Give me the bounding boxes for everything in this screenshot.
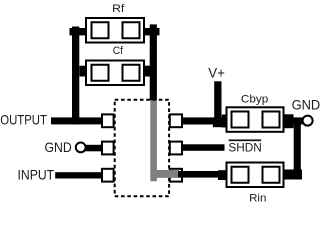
Cf right terminal stub [145, 66, 151, 77]
V+ bar bottom foot [213, 123, 223, 128]
svg-text:V+: V+ [208, 65, 225, 81]
capacitor Cf body [86, 61, 144, 86]
wire: Cbyp to GND circle [285, 117, 303, 124]
wire: OUTPUT to IC pin 1 [51, 117, 101, 124]
svg-text:Rf: Rf [112, 3, 125, 15]
wire: IC pin 4 to Rin [178, 171, 226, 178]
svg-text:Rin: Rin [249, 192, 266, 204]
Rin left terminal stub [218, 170, 226, 180]
Rf right terminal stub [145, 28, 160, 35]
terminal: GND open circle (left) [76, 143, 86, 153]
svg-text:OUTPUT: OUTPUT [0, 112, 47, 128]
node SHDN label (with overbar) [229, 139, 262, 141]
IC U1 dashed courtyard outline [115, 100, 169, 196]
wire: right vertical bus from Cbyp down to Rin [294, 121, 301, 180]
wire: right vertical bus from Rf/Cf right terminals down into IC top [150, 24, 157, 100]
wire: IC pin 5 to SHDN [183, 144, 225, 151]
svg-text:Cf: Cf [113, 45, 124, 57]
wire: INPUT to IC pin 3 [55, 172, 101, 178]
wire: GND to IC pin 2 [85, 145, 101, 152]
IC pad pin 6 (right top) [170, 114, 182, 127]
wire: IC pin 6 to Cbyp [183, 117, 226, 124]
IC pad pin 5 (right middle) [170, 142, 182, 155]
svg-text:Cbyp: Cbyp [241, 93, 268, 105]
wire: gray hidden trace horizontal through pin 4 [151, 170, 179, 178]
wire: left vertical bus from Rf/Cf left terminals down to OUTPUT node [72, 27, 79, 125]
Rf left terminal stub [70, 28, 86, 35]
IC pad pin 2 (left middle) [102, 142, 114, 155]
Rin right terminal stub [285, 170, 303, 180]
Cbyp left terminal stub [222, 115, 226, 128]
terminal: GND open circle (right) [303, 116, 313, 126]
svg-text:SHDN: SHDN [228, 140, 261, 154]
IC pad pin 3 (left bottom) [102, 169, 114, 182]
Cf left terminal stub [80, 66, 86, 77]
IC pad pin 4 (right bottom) [170, 169, 182, 182]
IC pad pin 1 (left top) [102, 114, 114, 127]
Cbyp right terminal stub [285, 114, 294, 128]
wire: V+ supply vertical bar [214, 81, 221, 127]
resistor Rin body [227, 163, 284, 188]
svg-text:INPUT: INPUT [18, 167, 55, 183]
resistor Rf body [86, 18, 144, 43]
svg-text:GND: GND [45, 139, 72, 155]
svg-text:GND: GND [292, 97, 320, 113]
wire: gray hidden trace vertical inside IC U1 [150, 100, 157, 181]
capacitor Cbyp body [227, 107, 284, 132]
